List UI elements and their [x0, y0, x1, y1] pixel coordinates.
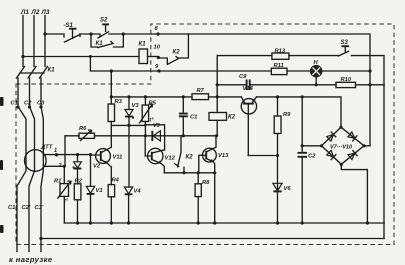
scan edge blobs [0, 97, 4, 106]
bus node R8 [197, 221, 200, 224]
variable resistor R6 [79, 133, 95, 138]
node term2 [63, 165, 66, 168]
lamp H [310, 65, 322, 77]
bus node V13 [213, 221, 216, 224]
node C1 rail2 [182, 134, 185, 137]
bottom bus 2 [41, 238, 384, 240]
phase line L2 top [33, 16, 35, 67]
wire S3 right [351, 56, 384, 239]
wire V11 collector row [111, 124, 145, 126]
svg-text:V6: V6 [284, 186, 292, 192]
resistor R7 [192, 94, 209, 100]
svg-text:S2: S2 [100, 18, 108, 24]
node V3 top [127, 95, 130, 98]
wire L3 to S1 [45, 34, 64, 37]
node A85 [368, 83, 371, 86]
resistor R8 [197, 173, 199, 184]
svg-text:R5: R5 [149, 101, 157, 107]
node R9 top [276, 95, 279, 98]
transistor V13 [203, 148, 217, 162]
svg-text:Л2: Л2 [31, 9, 40, 16]
svg-text:Л1: Л1 [20, 9, 29, 16]
contactor K1 main blades [17, 67, 48, 79]
svg-text:R10: R10 [341, 77, 352, 83]
node 10 [157, 56, 160, 59]
transistor V11 [96, 149, 111, 164]
bus node bridge [366, 221, 369, 224]
svg-text:к нагрузке: к нагрузке [9, 255, 53, 264]
resistor R10 [336, 82, 356, 87]
svg-text:ДТТ: ДТТ [40, 145, 53, 151]
phase line L3 top [44, 16, 46, 67]
node A71 [368, 69, 371, 72]
svg-text:К2: К2 [173, 50, 181, 56]
resistor R11 [271, 68, 287, 74]
svg-text:С2: С2 [308, 154, 316, 160]
wire to bridge left [302, 145, 321, 147]
wire coil to node10 [148, 56, 159, 58]
node rail2 right [215, 134, 218, 137]
relay coil K1 [139, 49, 148, 64]
svg-text:С3': С3' [35, 205, 44, 211]
diode bridge V7-V10 [322, 127, 365, 164]
rail 1 [111, 97, 341, 127]
bus node R2 [76, 221, 79, 224]
phase line L1 top [22, 16, 24, 67]
vertical with K2 coil [216, 56, 218, 136]
wire V14 base to R9 [248, 155, 277, 157]
svg-text:V2: V2 [93, 164, 101, 170]
phase line L2 lower [29, 78, 35, 252]
wire S2 to node 8 [109, 33, 188, 35]
svg-text:V14: V14 [243, 86, 254, 92]
svg-text:С2: С2 [24, 101, 32, 107]
capacitor C1 [182, 97, 184, 136]
svg-text:С1: С1 [190, 115, 197, 121]
wire C9 row [217, 84, 384, 86]
svg-text:V13: V13 [218, 153, 229, 159]
node R8 top [197, 171, 200, 174]
bridge diode V9 [327, 150, 336, 159]
diode V5 [151, 131, 153, 141]
svg-text:V3: V3 [132, 103, 140, 109]
svg-text:R2: R2 [75, 179, 83, 185]
svg-text:R13: R13 [275, 49, 286, 55]
svg-text:R9: R9 [283, 112, 291, 118]
svg-text:К1: К1 [48, 68, 56, 74]
node K2 top [216, 95, 219, 98]
limb x111 [110, 71, 112, 148]
K2 aux contact [158, 57, 178, 65]
svg-text:V11: V11 [113, 155, 123, 161]
resistor R4 [110, 167, 112, 185]
bus node R4 [110, 221, 113, 224]
wire 1 from DTT [44, 154, 91, 156]
node V1 top [89, 153, 92, 156]
svg-text:10: 10 [154, 45, 161, 51]
node below lamp [315, 83, 318, 86]
diode V4 [128, 125, 130, 187]
node R5 top [144, 95, 147, 98]
diode V1 [90, 155, 92, 187]
pushbutton S2 [98, 25, 109, 38]
svg-text:С1: С1 [11, 101, 18, 107]
svg-text:V7···V10: V7···V10 [330, 145, 352, 151]
wire 9 rail [90, 57, 370, 72]
relay coil K2 [209, 113, 227, 121]
capacitor C2 [298, 153, 308, 157]
node V2 top [76, 153, 79, 156]
wire 2 from DTT [44, 165, 64, 167]
bottom bus 1 [64, 222, 384, 224]
transistor V12 [148, 148, 163, 163]
svg-text:К2: К2 [228, 115, 236, 121]
thermistor R5 [144, 97, 146, 105]
emitter row wire [164, 172, 214, 174]
resistor R13 [272, 53, 289, 59]
node on L1 [21, 55, 24, 58]
contactor K1 tie bar [20, 72, 44, 74]
node C9 tee [216, 83, 219, 86]
node bus2 phase [39, 237, 42, 240]
svg-text:R11: R11 [274, 63, 284, 69]
svg-text:К1: К1 [96, 41, 104, 47]
lamp stub [315, 77, 317, 85]
svg-text:К2: К2 [186, 155, 194, 161]
rail2 left limb [64, 136, 66, 167]
pushbutton S3 [338, 47, 348, 57]
node 8 [156, 32, 159, 35]
node C3 [39, 105, 42, 108]
bridge node top [339, 126, 342, 129]
node V13 emitter [213, 171, 216, 174]
svg-text:R6: R6 [79, 126, 87, 132]
svg-text:R7: R7 [197, 88, 205, 94]
bridge diode V10 [348, 151, 357, 160]
bus node C2 [301, 221, 304, 224]
svg-text:V5: V5 [153, 123, 161, 129]
node C2 top [301, 95, 304, 98]
C2 column [301, 97, 303, 223]
svg-text:С9: С9 [239, 74, 247, 80]
svg-text:V12: V12 [165, 156, 176, 162]
resistor R1 [63, 166, 65, 183]
svg-text:С1': С1' [8, 205, 17, 211]
node V3/V4 [127, 124, 130, 127]
bridge diode V7 [327, 132, 336, 141]
K1 aux contact blade [98, 42, 113, 48]
svg-text:R4: R4 [112, 178, 120, 184]
svg-text:R8: R8 [202, 180, 210, 186]
current transformer DTT [25, 150, 47, 172]
K2 mid contact [175, 136, 184, 173]
bridge node right [362, 144, 365, 147]
transistor V14 [241, 99, 256, 114]
wire bridge bottom [341, 164, 367, 223]
diode V6 [277, 156, 279, 224]
node base/R9 [276, 154, 279, 157]
wire L1 to coil [23, 56, 139, 58]
bridge node left [320, 144, 323, 147]
svg-text:-S1: -S1 [64, 23, 74, 29]
node rail1 left [110, 95, 113, 98]
pushbutton S1 [65, 29, 81, 42]
node K2 bottom [182, 171, 185, 174]
bridge diode V8 [348, 132, 357, 141]
bus node V6 [276, 221, 279, 224]
node C1 top [182, 95, 185, 98]
zener V3 [128, 97, 130, 109]
rail 2 [65, 135, 217, 137]
resistor R2 [74, 184, 81, 200]
node C2 bridge tap [301, 144, 304, 147]
resistor R9 [274, 116, 281, 134]
phase line L1 lower [17, 78, 26, 252]
svg-text:С2': С2' [22, 205, 31, 211]
svg-text:V1: V1 [96, 188, 103, 194]
K1 aux branch wire [91, 34, 123, 47]
node limb-9rail [110, 69, 113, 72]
svg-text:S3: S3 [341, 40, 349, 46]
svg-text:К1: К1 [139, 42, 147, 48]
dashed unit boundary [16, 24, 394, 245]
node 9 [157, 69, 160, 72]
node C1 [16, 105, 19, 108]
node C2 [28, 105, 31, 108]
node term1 [55, 153, 58, 156]
bus node V1 [89, 221, 92, 224]
node K1 branch [89, 32, 92, 35]
zener V2 [77, 155, 79, 162]
svg-text:1: 1 [54, 148, 57, 154]
wire node8 to right [188, 34, 370, 146]
svg-text:V4: V4 [134, 189, 142, 195]
bridge node bottom [340, 163, 343, 166]
bus node V4 [127, 221, 130, 224]
drop to K2 contact [179, 34, 189, 58]
wire R13 row [217, 55, 338, 57]
node R5 rail2 [144, 134, 147, 137]
wire S1 to S2 [80, 34, 100, 37]
jumper to V12 collector [145, 125, 164, 150]
svg-text:R1: R1 [54, 179, 61, 185]
resistor R3 [108, 104, 114, 122]
node at T [89, 55, 92, 58]
wire bridge right to A [364, 145, 370, 147]
svg-text:R3: R3 [115, 99, 123, 105]
phase line L3 lower [41, 78, 43, 252]
node after S2 [122, 32, 125, 35]
capacitor C9 [247, 80, 250, 91]
node on L3 top [43, 32, 46, 35]
